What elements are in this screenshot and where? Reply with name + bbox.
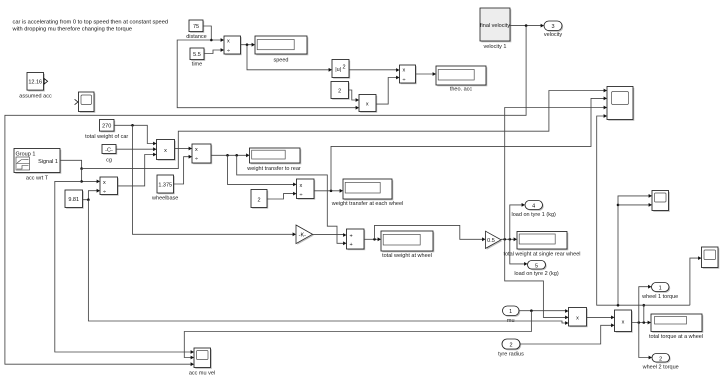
svg-text:wheel 2 torque: wheel 2 torque — [642, 364, 679, 370]
wire total weight to gain 0.5 — [375, 225, 484, 239]
svg-text:time: time — [192, 62, 202, 68]
svg-text:÷: ÷ — [195, 157, 198, 163]
wire torque up to feedback line — [643, 305, 645, 322]
svg-text:3: 3 — [551, 24, 554, 30]
node single rear wheel branch 2 — [509, 238, 512, 241]
display theo. acc — [436, 66, 487, 93]
wire product P2 to divide D3 — [175, 148, 190, 150]
product P6 2-input — [615, 310, 633, 333]
node torque branch 1 — [638, 321, 641, 324]
svg-text:x: x — [227, 39, 230, 45]
svg-text:x: x — [622, 319, 625, 325]
display total torque at a wheel — [649, 314, 703, 340]
node wttr branch 1 — [226, 154, 229, 157]
svg-text:270: 270 — [102, 124, 111, 130]
node single rear wheel branch 1 — [503, 238, 506, 241]
display speed — [255, 36, 308, 64]
divide P4 (weight transfer at each wheel) — [297, 179, 316, 200]
node torque to scope5 junction — [617, 304, 620, 307]
wire 270 to product P2 — [114, 125, 154, 143]
gain 0.5 — [486, 231, 503, 250]
wire signal1 out — [60, 160, 82, 168]
svg-text:|u|: |u| — [335, 67, 341, 73]
inport oval 1 (mu) — [503, 306, 521, 324]
product P5 3-input — [569, 308, 588, 328]
node acc branch 2 — [80, 180, 83, 183]
node torque branch 2 — [643, 321, 646, 324]
wire 9.81 to divide P3 — [83, 191, 98, 200]
inport oval 2 (tyre radius) — [498, 339, 524, 358]
constant 1.375 (wheelbase) — [151, 175, 178, 201]
wire D3 to display weight transfer to rear — [211, 154, 247, 156]
constant -C- (cg) — [102, 145, 117, 164]
constant 5.5 (time) — [190, 48, 205, 68]
wire P4 to display weight transfer at each wheel — [314, 190, 341, 192]
wire gain 0.5 to display total weight at single rear wheel — [501, 238, 515, 240]
wire acc to scope4 input1 — [82, 91, 605, 169]
abs square block |u|2 — [332, 60, 350, 79]
wire acc down — [82, 169, 98, 182]
node acc branch 1 — [80, 167, 83, 170]
svg-text:-C-: -C- — [105, 148, 113, 154]
constant block 12.16 (assumed acc) — [19, 73, 52, 100]
wire distance to product P1 — [177, 40, 356, 108]
wire product P5 to product P6 — [587, 316, 612, 318]
svg-text:velocity: velocity — [544, 32, 563, 38]
svg-text:x: x — [300, 183, 303, 189]
svg-text:acc wrt T: acc wrt T — [26, 175, 49, 181]
svg-text:Signal 1: Signal 1 — [38, 159, 58, 165]
wire time to divide D1 — [204, 50, 222, 54]
svg-text:acc mu vel: acc mu vel — [189, 370, 215, 376]
wire velocity to scope acc mu vel — [5, 26, 526, 365]
divide block D2 (theo acc) — [400, 65, 417, 84]
node wttr branch 2 — [235, 154, 238, 157]
svg-text:0.5: 0.5 — [487, 238, 495, 244]
sum block (+ +) — [347, 229, 366, 250]
product P2 3-input (270 x cg x acc/g) — [157, 140, 176, 161]
constant 2 (top) — [331, 82, 350, 100]
svg-text:1: 1 — [509, 309, 512, 315]
wire D2 to display theo acc — [415, 73, 433, 75]
svg-text:wheel 1 torque: wheel 1 torque — [641, 294, 678, 300]
svg-text:÷: ÷ — [403, 78, 406, 84]
node mu branch — [530, 309, 533, 312]
node torque feedback junction — [643, 304, 646, 307]
svg-text:with dropping mu therefore cha: with dropping mu therefore changing the … — [12, 27, 133, 33]
svg-text:2: 2 — [343, 64, 346, 70]
svg-text:2: 2 — [509, 343, 512, 349]
wire gain -K- to sum input1 — [313, 234, 345, 236]
svg-text:weight transfer to rear: weight transfer to rear — [246, 166, 301, 172]
annotation text — [12, 20, 169, 33]
node wtaew branch — [330, 190, 333, 193]
svg-text:÷: ÷ — [227, 49, 230, 55]
svg-text:cg: cg — [106, 158, 112, 164]
wire to outport 4 load on tyre 1 — [510, 205, 523, 239]
node speed branch — [246, 43, 249, 46]
svg-text:÷: ÷ — [300, 193, 303, 199]
wire 9.81 to product P5 — [88, 200, 566, 323]
svg-text:total torque at a wheel: total torque at a wheel — [649, 334, 703, 340]
svg-text:speed: speed — [274, 58, 289, 64]
svg-text:1: 1 — [659, 286, 662, 292]
wire torque to outport wheel 2 torque — [639, 323, 650, 358]
wire P6 to display total torque — [632, 322, 649, 324]
wire wttr to divide P4 — [228, 155, 295, 184]
svg-text:+: + — [350, 242, 353, 248]
gain -K- — [296, 225, 314, 245]
scope 2-input (right) — [652, 191, 670, 212]
wire torque to scope5 input2 — [618, 204, 650, 206]
wire constant 2 to product P1 — [349, 90, 357, 100]
outport oval 2 (wheel 2 torque) — [642, 354, 679, 371]
outport oval 3 (velocity) — [544, 21, 563, 38]
wire torque feedback line — [597, 116, 690, 305]
svg-text:tyre radius: tyre radius — [498, 352, 524, 358]
display weight transfer at each wheel — [331, 179, 404, 207]
wire D1 to display speed — [241, 44, 253, 46]
wire single rear wheel weight to product P5 — [505, 239, 566, 317]
wire torque to scope far right — [690, 258, 699, 305]
wire wheelbase to divide D3 — [174, 157, 190, 184]
wire speed to abs square — [247, 45, 330, 70]
svg-text:75: 75 — [193, 24, 199, 30]
scope 1-input (far right) — [702, 247, 720, 269]
outport oval 4 (load on tyre 1) — [512, 201, 556, 218]
svg-text:-K-: -K- — [299, 232, 307, 238]
svg-text:distance: distance — [186, 34, 207, 40]
wire 270 to gain -K- — [133, 125, 294, 234]
wire mu to product P5 — [519, 310, 566, 312]
node 270 branch — [131, 124, 134, 127]
svg-text:2: 2 — [659, 356, 662, 362]
display total weight at single rear wheel — [503, 232, 580, 258]
node velocity branch — [525, 24, 528, 27]
constant 270 (total weight of car) — [85, 120, 128, 141]
svg-text:2: 2 — [338, 88, 341, 94]
svg-text:theo. acc: theo. acc — [450, 87, 473, 93]
svg-text:weight transfer at each wheel: weight transfer at each wheel — [331, 201, 404, 207]
node 9.81 branch — [87, 198, 90, 201]
wire cg to product P2 — [116, 148, 154, 150]
wire wtaew to scope4 input2 — [331, 98, 605, 190]
divide P3 (acc / 9.81) — [100, 177, 119, 196]
scope acc mu vel (bottom left) — [189, 348, 215, 376]
wire torque to outport wheel 1 torque — [639, 287, 649, 323]
node distance branch — [210, 39, 213, 42]
product P1 (2*distance) — [359, 95, 377, 113]
constant 9.81 — [65, 190, 84, 209]
wire acc to scope acc mu vel — [55, 181, 192, 352]
outport oval 1 (wheel 1 torque) — [641, 283, 678, 300]
wire abs square to divide D2 — [349, 69, 397, 71]
svg-text:1.375: 1.375 — [158, 183, 172, 189]
wire constant 2 to divide P4 — [267, 194, 294, 199]
wire single rear wheel weight to scope4 input3 — [505, 108, 605, 240]
wire divide P3 to product P2 — [117, 155, 154, 186]
svg-text:5: 5 — [535, 263, 538, 269]
svg-text:total weight at single rear wh: total weight at single rear wheel — [503, 252, 580, 258]
divide block D1 (speed = distance/time) — [224, 36, 242, 55]
display total weight at wheel — [381, 231, 434, 259]
scope 4-input (top right) — [607, 87, 634, 121]
wire sum to display total weight at wheel — [364, 238, 379, 240]
svg-text:12.16: 12.16 — [28, 80, 42, 86]
svg-text:x: x — [366, 101, 369, 107]
divide D3 (weight transfer to rear) — [192, 144, 212, 164]
subsystem final velocity (velocity 1) — [480, 8, 511, 50]
svg-text:assumed acc: assumed acc — [19, 94, 52, 100]
node total weight branch — [373, 238, 376, 241]
svg-text:final velocity: final velocity — [480, 23, 510, 29]
wire mu to scope acc mu vel — [184, 311, 531, 358]
wire wttr to sum input2 — [237, 155, 344, 243]
svg-text:wheelbase: wheelbase — [151, 195, 178, 201]
display weight transfer to rear — [246, 148, 301, 172]
wire product P1 to divide D2 — [376, 78, 397, 105]
constant 2 (second) — [251, 190, 268, 209]
svg-text:x: x — [103, 180, 106, 186]
outport oval 5 (load on tyre 2) — [514, 261, 558, 277]
wire tyre radius to product P6 — [520, 325, 612, 344]
node scope5 input2 junction — [617, 204, 620, 207]
svg-text:x: x — [164, 148, 167, 154]
svg-text:÷: ÷ — [103, 189, 106, 195]
svg-text:load on tyre 1 (kg): load on tyre 1 (kg) — [512, 212, 556, 218]
constant 75 (distance) — [186, 20, 207, 40]
wire torque to scope5 input1 — [618, 196, 650, 305]
scope (unconnected, top-left) — [75, 92, 96, 113]
wire velocity1 to outport 3 — [510, 25, 542, 27]
wire to outport 5 load on tyre 2 — [510, 239, 525, 264]
svg-text:x: x — [195, 147, 198, 153]
svg-text:9.81: 9.81 — [68, 197, 79, 203]
svg-text:Group 1: Group 1 — [16, 152, 36, 158]
svg-text:load on tyre 2 (kg): load on tyre 2 (kg) — [514, 271, 558, 277]
svg-text:+: + — [350, 234, 353, 240]
svg-text:x: x — [576, 315, 579, 321]
svg-text:total weight at wheel: total weight at wheel — [382, 253, 432, 259]
wire distance to divide D1 — [203, 26, 222, 40]
svg-text:total weight of car: total weight of car — [85, 134, 128, 140]
svg-text:velocity 1: velocity 1 — [484, 44, 507, 50]
svg-text:2: 2 — [257, 197, 260, 203]
signal builder block (acc wrt T) — [14, 149, 61, 182]
svg-text:5.5: 5.5 — [193, 52, 201, 58]
svg-text:car is accelerating from 0 to: car is accelerating from 0 to top speed … — [13, 20, 169, 26]
svg-text:4: 4 — [532, 204, 535, 210]
svg-text:x: x — [403, 68, 406, 74]
